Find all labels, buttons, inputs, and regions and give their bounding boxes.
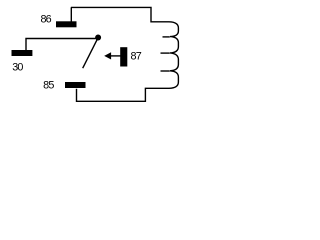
- switch node dot: [95, 35, 101, 41]
- terminal 86 pad: [56, 21, 77, 27]
- coil cusp tick 2: [161, 52, 170, 54]
- terminal 86 stub: [70, 7, 72, 21]
- terminal 87 pad: [120, 47, 127, 66]
- wire from 30 to switch node: [26, 39, 96, 51]
- arrowhead toward switch: [104, 52, 111, 59]
- wire top from 86 to coil: [71, 7, 169, 21]
- arrow shaft to 87: [108, 55, 121, 57]
- coil L1: [169, 22, 178, 89]
- svg-text:86: 86: [40, 14, 51, 26]
- coil cusp tick 1: [163, 36, 170, 38]
- switch arm: [83, 38, 98, 68]
- coil cusp tick 3: [161, 70, 170, 72]
- relay schematic: [0, 0, 187, 112]
- svg-text:85: 85: [43, 80, 54, 92]
- svg-text:87: 87: [131, 51, 142, 63]
- svg-text:30: 30: [12, 62, 23, 74]
- terminal 85 pad: [65, 82, 86, 88]
- terminal 30 pad: [12, 50, 33, 56]
- wire bottom from coil to 85: [77, 88, 170, 101]
